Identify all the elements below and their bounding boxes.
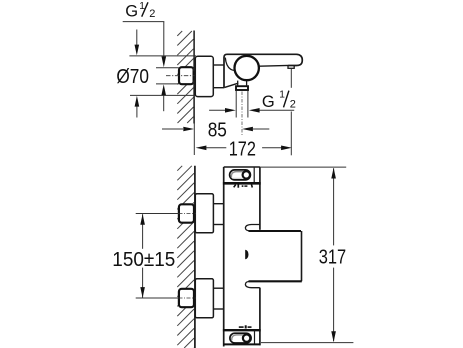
- svg-text:Ø70: Ø70: [116, 66, 149, 88]
- svg-text:317: 317: [319, 247, 346, 269]
- svg-text:G: G: [262, 93, 275, 111]
- svg-text:1: 1: [279, 90, 285, 101]
- svg-text:2: 2: [290, 98, 296, 110]
- svg-text:2: 2: [149, 8, 155, 20]
- svg-text:150±15: 150±15: [112, 249, 175, 271]
- svg-text:G: G: [125, 3, 138, 21]
- svg-text:172: 172: [229, 138, 256, 160]
- svg-text:85: 85: [208, 119, 227, 141]
